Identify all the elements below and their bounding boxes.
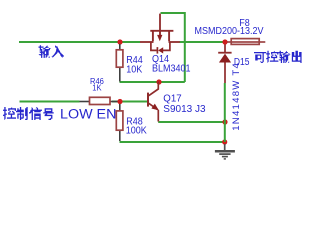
wire: control input net xyxy=(20,101,80,103)
Q14 bulk arrow xyxy=(157,35,162,41)
svg-text:MSMD200-13.2V: MSMD200-13.2V xyxy=(195,25,265,37)
Q17 emitter arrow xyxy=(151,104,159,111)
ground xyxy=(215,144,235,159)
junction: ground node xyxy=(222,139,227,144)
wire: gate net horizontal xyxy=(120,81,185,83)
junction: gate net / Q17 collector xyxy=(156,79,161,84)
svg-text:Q17: Q17 xyxy=(163,93,181,104)
svg-text:BLM3401: BLM3401 xyxy=(152,63,190,75)
node: control net label 控制信号 LOW EN xyxy=(3,107,54,120)
wire: ground net horizontal xyxy=(120,141,225,143)
fuse F8 xyxy=(227,39,265,45)
svg-text:S9013 J3: S9013 J3 xyxy=(163,104,206,115)
junction: output/D15/F8 xyxy=(222,39,227,44)
svg-text:LOW EN: LOW EN xyxy=(60,106,116,122)
resistor R46 xyxy=(80,97,118,104)
diode D15 xyxy=(218,45,231,84)
wire: output net xyxy=(180,41,226,43)
resistor R44 xyxy=(116,44,123,82)
wire: R46 to Q17 base xyxy=(112,101,147,103)
node: input net label 输入 xyxy=(39,45,64,58)
wire: D15 anode vertical to ground xyxy=(224,83,226,142)
Q14 body diode xyxy=(158,47,163,53)
svg-text:10K: 10K xyxy=(126,64,143,76)
junction: input/R44 xyxy=(117,39,122,44)
junction: emitter net / D15 vertical xyxy=(222,119,227,124)
wire: Q17 emitter to ground-diode net xyxy=(158,121,225,123)
svg-text:1K: 1K xyxy=(92,83,102,93)
resistor R48 xyxy=(116,104,123,141)
junction: base net / R48 xyxy=(117,99,122,104)
transistor Q14 PMOS BLM3401 xyxy=(140,14,180,54)
wire: gate loop from Q14 gate over the top and down xyxy=(161,13,185,82)
node: output net label 可控输出 xyxy=(254,51,302,63)
svg-text:100K: 100K xyxy=(126,125,148,137)
wire: input net xyxy=(19,41,140,43)
svg-text:1N4148W T4: 1N4148W T4 xyxy=(231,62,242,131)
transistor Q17 NPN xyxy=(148,82,158,122)
